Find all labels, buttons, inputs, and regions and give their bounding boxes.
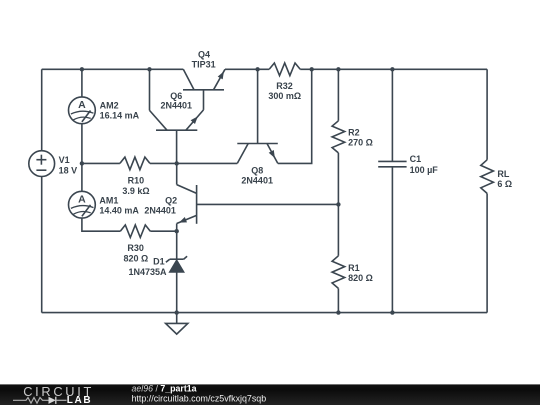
ground — [166, 313, 188, 335]
svg-text:14.40 mA: 14.40 mA — [99, 205, 139, 215]
ammeter AM1 — [69, 191, 140, 218]
svg-text:3.9 kΩ: 3.9 kΩ — [122, 186, 149, 196]
svg-text:2N4401: 2N4401 — [144, 205, 176, 215]
svg-text:Q2: Q2 — [165, 195, 177, 205]
wire bottom rail — [42, 312, 487, 314]
junction AM2 / AM1 / R10 — [80, 161, 84, 165]
node A junction — [175, 161, 179, 165]
wire Q8 emitter return to top rail — [278, 69, 312, 163]
svg-text:820 Ω: 820 Ω — [348, 273, 373, 283]
svg-text:100 µF: 100 µF — [410, 165, 439, 175]
zener diode D1 — [128, 231, 187, 312]
capacitor C1 — [378, 69, 438, 312]
svg-text:D1: D1 — [153, 256, 165, 266]
wire middle rail left of R10 — [82, 162, 120, 164]
wire top rail from Q4 emitter to R32 — [225, 68, 269, 70]
svg-text:270 Ω: 270 Ω — [348, 137, 373, 147]
transistor Q6 2N4401 — [150, 69, 204, 163]
wire RL bottom lead — [486, 193, 488, 312]
transistor Q8 2N4401 — [237, 69, 277, 185]
svg-text:R2: R2 — [348, 127, 360, 137]
wire AM2 top lead — [81, 69, 83, 97]
junction top rail / AM2 — [80, 67, 84, 71]
ammeter AM2 — [69, 97, 140, 124]
svg-text:820 Ω: 820 Ω — [124, 254, 149, 264]
wire top rail from R32 to right corner — [300, 68, 487, 70]
svg-text:16.14 mA: 16.14 mA — [100, 111, 140, 121]
svg-text:2N4401: 2N4401 — [161, 100, 193, 110]
wire RL top lead — [486, 69, 488, 160]
wire AM1 bottom to R30 — [82, 218, 120, 231]
junction top rail / Q8 base — [255, 67, 259, 71]
voltage source V1 — [29, 151, 77, 177]
svg-text:1N4735A: 1N4735A — [128, 267, 167, 277]
junction top rail / C1 — [390, 67, 394, 71]
resistor R32 — [268, 63, 301, 101]
junction R30 / Q2 emitter / D1 — [175, 229, 179, 233]
resistor R30 — [120, 225, 176, 264]
junction top rail / Q8 emitter return — [310, 67, 314, 71]
transistor Q4 TIP31 — [183, 50, 225, 110]
svg-text:R30: R30 — [127, 243, 144, 253]
resistor R10 — [120, 157, 150, 196]
svg-text:A: A — [78, 99, 86, 111]
junction top rail / R2 — [336, 67, 340, 71]
wire Q2 base to R2/R1 divider — [197, 203, 339, 205]
svg-text:R32: R32 — [276, 81, 293, 91]
svg-text:2N4401: 2N4401 — [241, 176, 273, 186]
junction top rail / Q6 collector — [147, 67, 151, 71]
junction bottom rail / D1 / ground — [175, 310, 179, 314]
svg-text:R1: R1 — [348, 263, 360, 273]
wire R10 right lead to node A — [150, 162, 177, 164]
svg-text:6 Ω: 6 Ω — [497, 179, 512, 189]
svg-text:AM2: AM2 — [100, 101, 119, 111]
transistor Q2 2N4401 — [144, 163, 196, 231]
svg-text:ael96 / 7_part1a: ael96 / 7_part1a — [132, 384, 197, 394]
svg-text:300 mΩ: 300 mΩ — [268, 91, 301, 101]
svg-text:18 V: 18 V — [59, 165, 78, 175]
resistor RL — [481, 160, 512, 194]
wire AM2 to AM1 link — [81, 124, 83, 192]
svg-text:R10: R10 — [128, 175, 145, 185]
svg-text:A: A — [78, 193, 86, 205]
svg-text:V1: V1 — [59, 155, 70, 165]
svg-text:http://circuitlab.com/cz5vfkxj: http://circuitlab.com/cz5vfkxjq7sqb — [132, 394, 267, 404]
CircuitLab logo — [13, 384, 94, 406]
svg-text:TIP31: TIP31 — [192, 60, 216, 70]
wire node A to Q8 collector — [177, 162, 238, 164]
svg-text:Q8: Q8 — [251, 166, 263, 176]
footer bar — [0, 384, 540, 405]
junction bottom rail / C1 — [390, 310, 394, 314]
svg-text:Q6: Q6 — [170, 91, 182, 101]
junction bottom rail / R1 — [336, 310, 340, 314]
resistor R1 — [332, 204, 373, 312]
svg-text:AM1: AM1 — [99, 195, 118, 205]
svg-text:RL: RL — [497, 169, 509, 179]
wire V1 bottom lead — [41, 176, 43, 312]
svg-text:C1: C1 — [410, 154, 422, 164]
wire top rail left segment — [42, 68, 184, 70]
junction Q2 base / R2 / R1 — [336, 202, 340, 206]
svg-text:Q4: Q4 — [198, 50, 210, 60]
wire V1 top lead — [41, 69, 43, 151]
resistor R2 — [332, 69, 373, 204]
svg-text:LAB: LAB — [67, 395, 92, 405]
